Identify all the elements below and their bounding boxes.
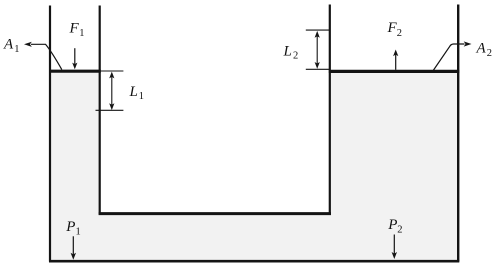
svg-text:1: 1	[14, 44, 19, 55]
svg-text:2: 2	[293, 51, 298, 62]
svg-text:2: 2	[487, 48, 492, 59]
svg-text:P: P	[65, 219, 75, 235]
tick L2 top	[306, 29, 329, 31]
wall: outer bottom	[49, 260, 459, 263]
tick L1 top	[99, 70, 123, 72]
label P2	[387, 217, 402, 236]
label F2	[387, 20, 403, 39]
svg-text:1: 1	[76, 227, 81, 238]
svg-text:L: L	[129, 84, 138, 100]
wall: inner bottom of channel	[99, 212, 331, 215]
leader arrow A1 (points left to label)	[24, 42, 62, 70]
tick L1 bottom	[96, 109, 124, 111]
svg-text:A: A	[476, 40, 487, 56]
wall: outer right	[457, 5, 459, 262]
dimension arrow L2 (double headed)	[315, 31, 320, 69]
wall: outer left	[49, 6, 51, 262]
piston left (small)	[49, 70, 101, 73]
wall: left tube right side	[99, 6, 101, 215]
svg-text:2: 2	[397, 28, 402, 39]
label A2	[476, 40, 493, 59]
pressure arrow P2 (down to bottom)	[392, 235, 397, 260]
wall: right tube left side	[329, 5, 331, 215]
label P1	[65, 219, 80, 238]
force arrow F2 (up from right piston)	[393, 50, 398, 70]
svg-text:P: P	[387, 217, 397, 233]
svg-text:1: 1	[139, 91, 144, 102]
svg-text:1: 1	[79, 28, 84, 39]
svg-text:A: A	[3, 36, 14, 52]
pressure arrow P1 (down to bottom)	[71, 236, 76, 259]
label L1	[129, 84, 145, 102]
svg-text:F: F	[69, 20, 80, 36]
leader arrow A2 (points right to label)	[433, 41, 471, 70]
dimension arrow L1 (double headed)	[109, 72, 114, 111]
label F1	[69, 20, 85, 39]
label L2	[283, 43, 299, 61]
svg-text:L: L	[283, 43, 292, 59]
tick L2 bottom	[306, 68, 329, 70]
liquid fill (U-shaped fluid)	[50, 71, 458, 261]
force arrow F1 (down onto left piston)	[72, 48, 77, 69]
piston right (large)	[329, 70, 460, 73]
label A1	[3, 36, 20, 55]
svg-text:2: 2	[397, 225, 402, 236]
